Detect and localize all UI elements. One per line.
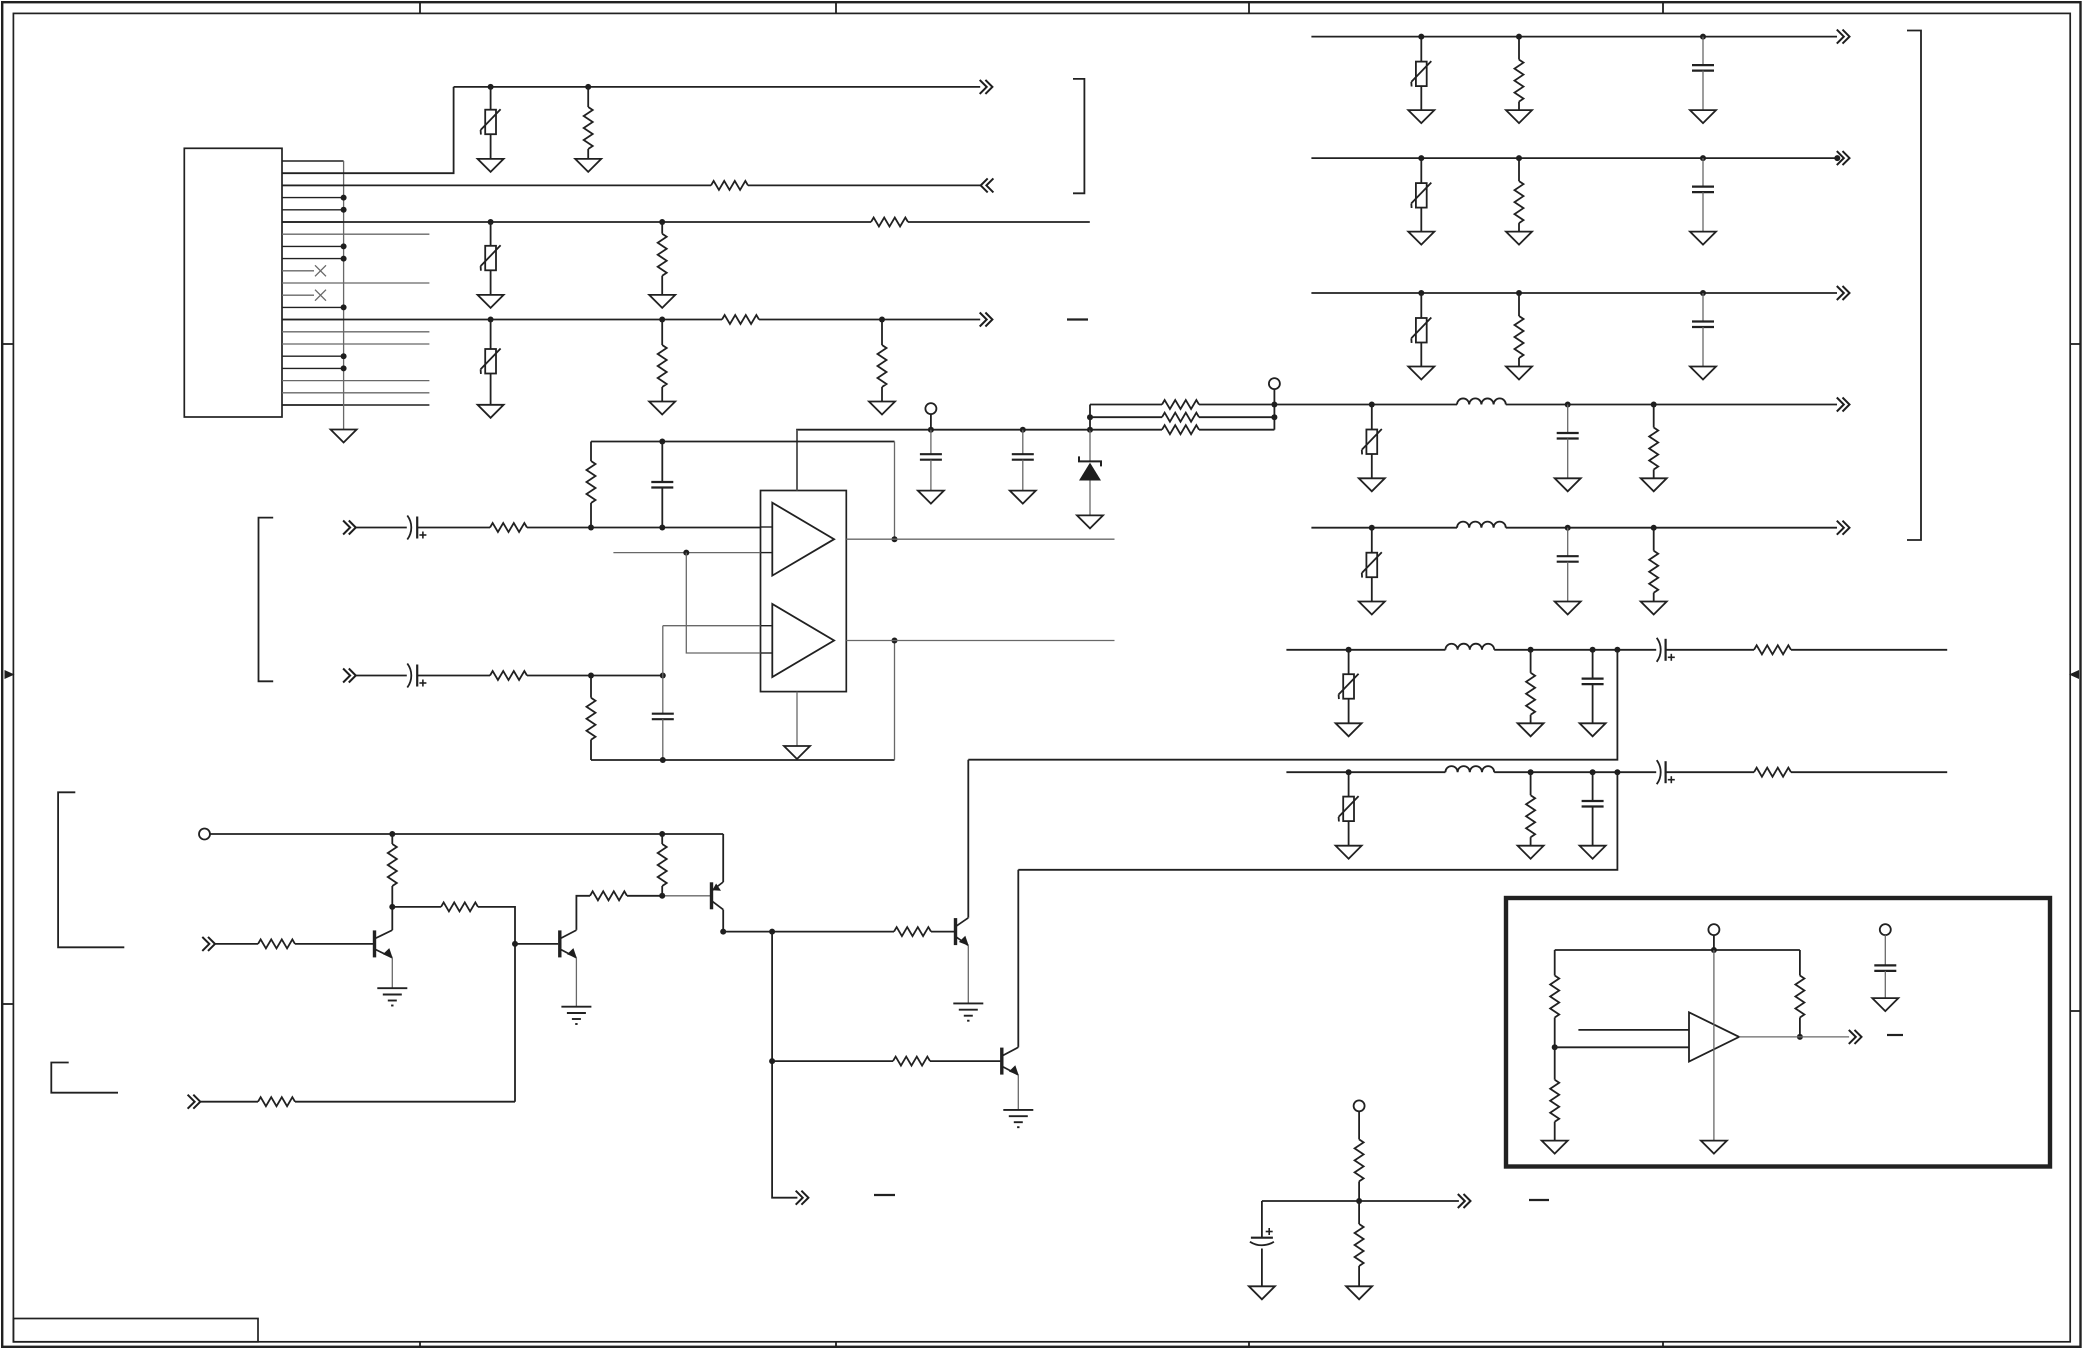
ground R1 — [575, 159, 601, 172]
inductor L2 — [1457, 522, 1506, 528]
ground RV4 — [1408, 110, 1434, 123]
resistor R31 — [258, 1097, 295, 1106]
wire tx in1 a — [215, 943, 258, 945]
varistor RV3 — [481, 320, 501, 405]
output arrow vref — [1458, 1194, 1471, 1208]
junction — [341, 243, 347, 249]
resistor R6 — [658, 320, 667, 402]
junction — [1700, 34, 1706, 40]
wire net rail3 a — [282, 221, 871, 223]
output arrow right rail3 — [1837, 286, 1850, 300]
resistor R26 — [258, 939, 295, 948]
wire bank mid b — [1199, 416, 1274, 418]
capacitor C6 — [652, 714, 674, 760]
input arrow tx1 — [202, 937, 215, 951]
ground C17 — [1872, 998, 1898, 1011]
junction — [769, 929, 775, 935]
ground R7 — [869, 402, 895, 415]
wire vref left leg — [1261, 1201, 1263, 1238]
transistor Q5 (NPN) — [1002, 1047, 1019, 1110]
ground RV1 — [478, 159, 504, 172]
wire Q3 base — [662, 895, 711, 897]
input arrow ch1 — [343, 521, 356, 535]
resistor R34 — [1550, 950, 1559, 1047]
capacitor C4 — [651, 442, 673, 528]
wire base chain vertical — [772, 932, 797, 1198]
ground RV9 — [1336, 723, 1362, 736]
varistor RV7 — [1362, 405, 1382, 479]
junction — [488, 219, 494, 225]
ground R19 — [1641, 602, 1667, 615]
op-amp U1B — [772, 604, 834, 677]
wire rail7 takeoff — [1018, 772, 1617, 870]
resistor R9 — [1162, 413, 1199, 422]
wire U2 noninv input — [1578, 1029, 1689, 1031]
capacitor C8 — [1692, 158, 1714, 232]
resistor R33 — [1355, 1201, 1364, 1286]
wire to Q5 base a — [772, 1060, 893, 1062]
wire ch1 in c — [527, 527, 761, 529]
junction — [1700, 290, 1706, 296]
junction — [341, 353, 347, 359]
resistor R7 — [878, 320, 887, 402]
wire bank top a — [1090, 404, 1162, 406]
wire bank bot a — [1090, 429, 1162, 431]
resistor R13 — [490, 671, 527, 680]
border center arrow left — [5, 670, 15, 679]
capacitor C17 — [1874, 935, 1896, 998]
junction — [1614, 769, 1620, 775]
resistor R14 — [587, 676, 596, 761]
junction — [1651, 525, 1657, 531]
wire net right rail5 b — [1506, 527, 1837, 529]
resistor R12 — [587, 442, 596, 528]
ground C9 — [1690, 367, 1716, 380]
junction — [488, 84, 494, 90]
ground C10 — [1555, 478, 1581, 491]
wire Q4 collector up — [967, 760, 969, 917]
capacitor C5 (polarized) — [407, 664, 426, 688]
wire ch1 feedback right — [894, 442, 896, 540]
ground R33 — [1346, 1286, 1372, 1299]
wire net right rail6 d — [1791, 649, 1947, 651]
wire net right rail4 a — [1274, 404, 1457, 406]
ground R20 — [1518, 723, 1544, 736]
wire Q5 collector up — [1017, 870, 1019, 1047]
resistor R27 — [590, 891, 627, 900]
junction — [879, 317, 885, 323]
op-amp U1A — [772, 503, 834, 576]
ground RV5 — [1408, 232, 1434, 245]
wire U1 ground pin — [796, 692, 798, 746]
resistor R32 — [1355, 1111, 1364, 1201]
junction — [1528, 769, 1534, 775]
wire ch2 feedback bottom — [591, 759, 895, 761]
varistor RV4 — [1411, 37, 1431, 111]
ground C11 — [1555, 602, 1581, 615]
ground C16 — [1249, 1286, 1275, 1299]
resistor R2 — [711, 181, 748, 190]
resistor R8 — [1162, 400, 1199, 409]
wire net rail4 a — [282, 319, 722, 321]
wire net right rail5 a — [1311, 527, 1457, 529]
transistor Q3 (PNP) — [712, 834, 724, 932]
op-amp U2 — [1689, 1012, 1739, 1061]
ground R6 — [649, 402, 675, 415]
resistor R35 — [1550, 1047, 1559, 1140]
junction — [928, 427, 934, 433]
wire ch1 in b — [417, 527, 490, 529]
inductor L4 — [1445, 766, 1494, 772]
wire net right rail7 c — [1666, 771, 1754, 773]
junction — [389, 831, 395, 837]
ground RV2 — [478, 295, 504, 308]
varistor RV9 — [1339, 650, 1359, 724]
detail box — [1506, 898, 2050, 1167]
ground Q4 (earth) — [953, 1003, 983, 1020]
junction — [1516, 290, 1522, 296]
junction — [588, 525, 594, 531]
port bias — [199, 829, 210, 840]
capacitor C15 (polarized) — [1657, 760, 1675, 784]
wire bank bot b — [1199, 429, 1274, 431]
wire bank right vertical — [1273, 389, 1275, 430]
wire C16 stem — [1261, 1249, 1263, 1287]
junction — [1651, 402, 1657, 408]
wire tx in2 a — [200, 1101, 258, 1103]
junction — [1834, 155, 1840, 161]
wire to Q4 base — [931, 931, 954, 933]
port supply out — [1269, 378, 1280, 389]
junction — [1614, 647, 1620, 653]
wire ch2 in a — [356, 675, 407, 677]
port detail supply — [1708, 924, 1719, 935]
junction — [1346, 769, 1352, 775]
junction — [659, 219, 665, 225]
ground R16 — [1506, 232, 1532, 245]
output arrow mute — [796, 1191, 809, 1205]
junction — [1565, 525, 1571, 531]
capacitor C10 — [1557, 405, 1579, 479]
ground Q5 (earth) — [1003, 1110, 1033, 1127]
wire net right rail7 a — [1286, 771, 1445, 773]
wire ch2 vertical a — [662, 626, 664, 714]
ground C7 — [1690, 110, 1716, 123]
wire rail6 takeoff — [968, 650, 1617, 760]
port supply — [925, 403, 936, 414]
wire U1A output — [846, 538, 1114, 540]
capacitor C12 — [1582, 650, 1604, 724]
varistor RV6 — [1411, 293, 1431, 367]
wire Q1 collector net a — [392, 906, 441, 908]
junction — [659, 439, 665, 445]
wire net right rail2 — [1311, 157, 1837, 159]
junction — [892, 638, 898, 644]
net label dash detail — [1529, 1199, 1549, 1201]
wire bank mid a — [1090, 416, 1162, 418]
output arrow right rail4 — [1837, 398, 1850, 412]
wire net rail1 — [454, 86, 981, 88]
wire net rail2 b — [748, 184, 981, 186]
bracket marker tx1 — [58, 792, 124, 947]
junction — [1369, 402, 1375, 408]
ground R4 — [649, 295, 675, 308]
capacitor C11 — [1557, 528, 1579, 602]
diode D1 (zener) — [1079, 430, 1101, 516]
ground R15 — [1506, 110, 1532, 123]
capacitor C9 — [1692, 293, 1714, 367]
ground Q2 (earth) — [561, 1007, 591, 1024]
resistor R29 — [894, 927, 931, 936]
junction — [1271, 402, 1277, 408]
wire vref rail — [1262, 1200, 1459, 1202]
junction — [1356, 1198, 1362, 1204]
resistor R22 — [1526, 772, 1535, 846]
wire Q2 collector b — [627, 895, 662, 897]
ground R17 — [1506, 367, 1532, 380]
title block strip — [13, 1319, 258, 1342]
junction — [1516, 155, 1522, 161]
bracket marker right — [1907, 31, 1921, 541]
resistor R19 — [1649, 528, 1658, 602]
varistor RV8 — [1362, 528, 1382, 602]
output arrow rail1 — [980, 80, 993, 94]
resistor R3 — [871, 218, 908, 227]
wire bank vertical — [1089, 405, 1091, 430]
wire net right rail3 — [1311, 292, 1837, 294]
junction — [1271, 414, 1277, 420]
junction — [892, 536, 898, 542]
capacitor C13 (polarized) — [1657, 638, 1675, 662]
resistor R24 — [388, 834, 397, 907]
no-connect X pin 11 — [315, 265, 326, 276]
varistor RV10 — [1339, 772, 1359, 846]
input arrow tx2 — [188, 1095, 201, 1109]
capacitor C2 — [1012, 430, 1034, 491]
wire U1 power pin — [796, 430, 798, 491]
resistor R30 — [893, 1057, 930, 1066]
transistor Q2 (NPN) — [560, 929, 577, 1006]
wire detail inv input — [1555, 1046, 1689, 1048]
junction — [1552, 1044, 1558, 1050]
wire tx in2 b — [295, 1101, 515, 1103]
output arrow right rail2 — [1837, 151, 1850, 165]
port detail cap — [1880, 924, 1891, 935]
transistor Q4 (NPN) — [956, 917, 969, 1003]
wire U1A inv input stub — [613, 552, 760, 554]
junction — [1020, 427, 1026, 433]
junction — [1565, 402, 1571, 408]
resistor R1 — [584, 87, 593, 159]
op-amp U1 package — [761, 491, 847, 692]
wire bias rail — [210, 833, 723, 835]
input arrow ch2 — [343, 669, 356, 683]
wire tx in1 b — [295, 943, 373, 945]
junction — [341, 256, 347, 262]
junction — [659, 525, 665, 531]
resistor R20 — [1526, 650, 1535, 724]
ground RV3 — [478, 405, 504, 418]
junction — [660, 673, 666, 679]
bracket marker tx2 — [51, 1063, 118, 1093]
bracket marker — [1073, 79, 1084, 193]
junction — [769, 1058, 775, 1064]
wire detail top rail — [1555, 949, 1800, 951]
net label dash U2 — [1887, 1034, 1903, 1036]
junction — [1711, 947, 1717, 953]
capacitor C7 — [1692, 37, 1714, 111]
capacitor C16 (polarized) — [1250, 1228, 1274, 1245]
wire ground bus — [343, 161, 345, 430]
resistor R18 — [1649, 405, 1658, 479]
resistor R21 — [1754, 645, 1791, 654]
wire ch1 in a — [356, 527, 407, 529]
net label dash rail4 — [1067, 318, 1088, 320]
ground C2 — [1010, 491, 1036, 504]
wire port stem — [930, 414, 932, 430]
wire net right rail4 b — [1506, 404, 1837, 406]
junction — [341, 304, 347, 310]
inductor L1 — [1457, 398, 1506, 404]
junction — [659, 317, 665, 323]
ground U1 — [784, 746, 810, 759]
capacitor C14 — [1582, 772, 1604, 846]
varistor RV1 — [481, 87, 501, 159]
junction — [659, 893, 665, 899]
junction — [1418, 155, 1424, 161]
resistor R4 — [658, 222, 667, 295]
ground RV10 — [1336, 846, 1362, 859]
junction — [1087, 414, 1093, 420]
junction — [1346, 647, 1352, 653]
wire net right rail7 d — [1791, 771, 1947, 773]
resistor R17 — [1515, 293, 1524, 367]
resistor R25 — [441, 902, 478, 911]
wire Q3 collector net — [723, 931, 894, 933]
ground C1 — [918, 491, 944, 504]
junction — [1087, 427, 1093, 433]
wire Q1 collector net b — [478, 907, 515, 1102]
output arrow U2 — [1849, 1030, 1862, 1044]
junction — [389, 904, 395, 910]
transistor Q1 (NPN) — [375, 907, 393, 988]
wire net rail4 b — [759, 319, 980, 321]
wire to Q5 base b — [930, 1060, 1000, 1062]
junction — [1797, 1034, 1803, 1040]
resistor R36 — [1795, 950, 1804, 1037]
wire detail mid vertical — [1713, 950, 1715, 1141]
ground R18 — [1641, 478, 1667, 491]
resistor R11 — [490, 523, 527, 532]
border center arrow right — [2069, 670, 2079, 679]
junction — [488, 317, 494, 323]
wire inv link vertical — [686, 553, 760, 653]
varistor RV2 — [481, 222, 501, 295]
output arrow rail4 — [980, 313, 993, 327]
wire ch2 to U1B input — [663, 625, 761, 627]
junction — [588, 673, 594, 679]
wire net right rail6 a — [1286, 649, 1445, 651]
wire bank top b — [1199, 404, 1274, 406]
wire ch2 feedback right — [894, 641, 896, 761]
wire U1B output — [846, 640, 1114, 642]
wire net right rail7 b — [1494, 771, 1656, 773]
wire net right rail6 b — [1494, 649, 1656, 651]
wire net right rail1 — [1311, 36, 1837, 38]
junction — [341, 195, 347, 201]
junction — [720, 929, 726, 935]
port vref — [1354, 1100, 1365, 1111]
ground bus GND — [331, 430, 357, 443]
wire detail stem — [1713, 935, 1715, 950]
output arrow right rail5 — [1837, 521, 1850, 535]
varistor RV5 — [1411, 158, 1431, 232]
ground R35 — [1542, 1141, 1568, 1154]
wire pin2 to top rail — [282, 87, 454, 173]
capacitor C3 (polarized) — [407, 516, 426, 540]
wire pin 21 stub — [282, 404, 429, 406]
connector J1 pins — [282, 161, 429, 405]
ground C8 — [1690, 232, 1716, 245]
resistor R23 — [1754, 768, 1791, 777]
junction — [512, 941, 518, 947]
junction — [341, 365, 347, 371]
no-connect X pin 13 — [315, 290, 326, 301]
wire net rail2 a — [282, 184, 711, 186]
wire ch2 in c — [527, 675, 663, 677]
net label dash mute — [874, 1194, 895, 1196]
resistor R28 — [658, 834, 667, 896]
wire Q2 collector a — [576, 896, 590, 930]
junction — [683, 550, 689, 556]
ground C12 — [1580, 723, 1606, 736]
ground C14 — [1580, 846, 1606, 859]
junction — [659, 831, 665, 837]
input arrow rail2 — [981, 178, 994, 192]
ground RV8 — [1359, 602, 1385, 615]
junction — [585, 84, 591, 90]
output arrow right rail1 — [1837, 30, 1850, 44]
resistor R5 — [722, 315, 759, 324]
op-amp U1 pin stubs — [761, 527, 773, 653]
junction — [1516, 34, 1522, 40]
resistor R15 — [1515, 37, 1524, 111]
ground D1 — [1077, 515, 1103, 528]
junction — [1418, 34, 1424, 40]
junction — [1590, 647, 1596, 653]
ground RV6 — [1408, 367, 1434, 380]
wire to Q2 base — [515, 943, 558, 945]
junction — [1369, 525, 1375, 531]
ground RV7 — [1359, 478, 1385, 491]
wire net right rail6 c — [1666, 649, 1754, 651]
resistor R16 — [1515, 158, 1524, 232]
junction — [341, 207, 347, 213]
junction — [1590, 769, 1596, 775]
inductor L3 — [1445, 644, 1494, 650]
junction — [660, 757, 666, 763]
junction — [1700, 155, 1706, 161]
connector J1 — [184, 148, 282, 417]
junction — [1528, 647, 1534, 653]
resistor R10 — [1162, 425, 1199, 434]
wire U2 output — [1739, 1036, 1849, 1038]
wire ch1 feedback top — [591, 441, 895, 443]
ground U2 — [1701, 1141, 1727, 1154]
wire supply rail — [797, 430, 1090, 491]
ground Q1 (earth) — [377, 988, 407, 1005]
wire ch2 in b — [417, 675, 490, 677]
